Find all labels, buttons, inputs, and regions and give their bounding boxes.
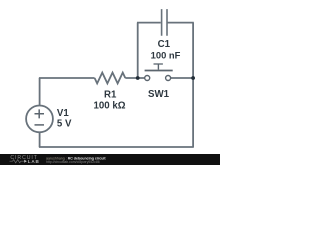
svg-text:http://circuitlab.com/c/8pwry5: http://circuitlab.com/c/8pwry552c86: [46, 160, 100, 164]
voltage source V1 plus sign: [35, 109, 45, 125]
switch SW1 bar and actuator: [145, 64, 173, 71]
svg-text:5 V: 5 V: [57, 119, 72, 130]
switch SW1 terminal circles: [145, 76, 171, 81]
wire top-left horizontal (node to R1): [39, 77, 95, 79]
svg-text:100 nF: 100 nF: [151, 49, 181, 60]
CircuitLab logo resistor zigzag: [10, 160, 24, 163]
svg-text:R1: R1: [104, 90, 117, 101]
wire R1 to node A: [125, 77, 145, 79]
wire capacitor branch top-right: [167, 22, 194, 24]
wire left vertical bottom (V1 to bottom rail): [39, 132, 41, 147]
wire capacitor branch vertical: [137, 23, 139, 78]
wire capacitor branch top-left: [137, 22, 161, 24]
svg-text:V1: V1: [57, 108, 69, 119]
svg-text:LAB: LAB: [28, 159, 40, 164]
voltage source V1 circle: [26, 106, 53, 133]
CircuitLab logo arrow: [24, 160, 27, 163]
watermark banner: [0, 154, 220, 165]
resistor R1: [95, 73, 126, 84]
node B junction dot: [191, 76, 195, 80]
voltage source V1 minus sign: [35, 124, 45, 126]
wire SW1 to node B: [171, 77, 194, 79]
capacitor C1 plates: [162, 9, 167, 36]
svg-text:100 kΩ: 100 kΩ: [93, 100, 125, 111]
wire left vertical top (V1 to main node): [39, 78, 41, 106]
wire right vertical: [192, 23, 194, 147]
node A junction dot: [136, 76, 140, 80]
svg-text:SW1: SW1: [148, 89, 170, 100]
wire bottom rail: [39, 146, 194, 148]
